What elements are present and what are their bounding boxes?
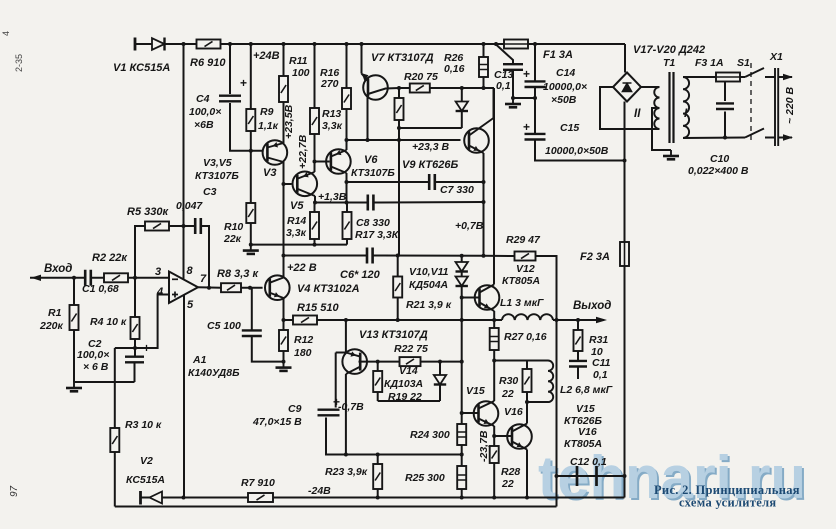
label C13 value: [496, 80, 511, 92]
transistor V3 KT3107: [263, 140, 288, 165]
label R3: [125, 419, 162, 431]
label R27: [504, 331, 547, 343]
label KT805A col: [564, 438, 602, 450]
wire V11 to V12 base: [462, 286, 480, 298]
svg-text:R15 510: R15 510: [297, 302, 339, 314]
svg-text:С6* 120: С6* 120: [340, 269, 381, 281]
svg-text:3,3к: 3,3к: [286, 227, 307, 239]
label C10 value: [688, 165, 749, 177]
wire R17 bottom stub: [346, 239, 348, 245]
page mark 4: [1, 31, 11, 36]
wire R26 column top: [483, 44, 485, 57]
svg-text:R30: R30: [499, 375, 518, 387]
wire bias column to bus: [461, 298, 463, 321]
wire R10 column: [250, 151, 252, 203]
wire C3 to output node: [201, 226, 209, 288]
label R16: [320, 67, 339, 79]
svg-text:L1 3 мкГ: L1 3 мкГ: [500, 297, 544, 309]
label V2 type: [126, 474, 165, 486]
wire V4 emitter drop: [283, 298, 285, 320]
svg-text:+: +: [523, 120, 530, 134]
capacitor C3: [195, 218, 201, 234]
svg-text:4: 4: [156, 286, 163, 298]
label R1 value: [39, 320, 64, 332]
label +0.7V: [455, 220, 484, 232]
label V14 type: [384, 378, 423, 390]
wire V12 emitter drop: [493, 311, 495, 320]
wire V10 column top: [461, 256, 463, 262]
wire R4 column: [134, 278, 136, 317]
svg-text:0,16: 0,16: [444, 63, 465, 75]
svg-text:V9 КТ626Б: V9 КТ626Б: [402, 159, 458, 171]
ground ground under R10: [243, 245, 259, 254]
label V16 col: [578, 426, 597, 438]
svg-text:+: +: [143, 341, 150, 355]
junction dots lower: [182, 136, 728, 500]
svg-text:+22,7В: +22,7В: [297, 134, 309, 169]
wire V12 collector column: [493, 88, 495, 285]
label R25: [405, 472, 445, 484]
svg-text:F2 3А: F2 3А: [580, 251, 610, 263]
wire R25 stubs: [461, 455, 463, 467]
label R14 value: [286, 227, 307, 239]
wire C5 drop: [251, 288, 253, 330]
wire R23 bottom stub: [377, 489, 379, 498]
label F3: [695, 57, 724, 69]
label C2 value: [77, 349, 109, 361]
wire C4 top stub: [229, 44, 231, 94]
zener V2: [150, 492, 163, 504]
svg-text:R14: R14: [287, 215, 306, 227]
page mark 2-35: [14, 54, 24, 72]
label R20: [404, 71, 438, 83]
wire V2 leads: [141, 497, 184, 499]
svg-text:R11: R11: [289, 55, 308, 67]
label C4 value: [189, 106, 221, 118]
wire C2 bottom stub: [134, 363, 136, 383]
label C4 volts: [194, 119, 214, 131]
label V12: [516, 263, 535, 275]
svg-text:22: 22: [501, 478, 514, 490]
wire output bus: [317, 319, 502, 321]
label winding II: [634, 108, 641, 120]
wire V6 emitter rise: [346, 140, 348, 150]
label X1: [769, 51, 783, 63]
label R10 value: [223, 233, 242, 245]
resistor R19: [373, 371, 382, 392]
label R17: [355, 229, 400, 241]
capacitor C5: [242, 330, 262, 336]
svg-text:V3: V3: [263, 167, 276, 179]
label +22V: [287, 262, 317, 274]
svg-text:КД103А: КД103А: [384, 378, 423, 390]
label R12: [294, 334, 313, 346]
label A1 type: [188, 367, 240, 379]
wire R14 bottom stub: [314, 239, 316, 245]
wire V10-V11 link: [461, 272, 463, 277]
wire C13-C14 ground wire: [513, 97, 535, 99]
wire pin5 drop: [183, 295, 185, 498]
svg-text:V12: V12: [516, 263, 535, 275]
wire V13 base column: [345, 320, 347, 353]
ground ground T1 tap: [663, 150, 679, 159]
label C9: [288, 403, 302, 415]
transistor V5 KT3107: [293, 172, 318, 197]
wire F2 column: [624, 102, 626, 243]
svg-text:3: 3: [155, 266, 161, 278]
connector X1: [775, 68, 793, 146]
svg-text:V7 КТ3107Д: V7 КТ3107Д: [371, 52, 434, 64]
label C3: [203, 186, 217, 198]
wire C8 wire right: [373, 201, 483, 204]
svg-text:R17 3,3К: R17 3,3К: [355, 229, 400, 241]
svg-text:V15: V15: [466, 385, 485, 397]
resistor R22: [400, 357, 421, 366]
wire V14 bottom stub: [439, 385, 441, 402]
wire R14 top stub: [314, 203, 316, 213]
wire V6 collector drop: [346, 173, 348, 203]
svg-text:R22 75: R22 75: [394, 343, 428, 355]
label C10: [710, 153, 729, 165]
label +1.3V: [318, 191, 347, 203]
wire C9 bottom wire: [346, 454, 462, 456]
capacitor C12 plate B: [595, 466, 598, 486]
svg-text:С3: С3: [203, 186, 217, 198]
label -0.7V: [338, 401, 364, 413]
wire R1 bottom stub: [73, 330, 75, 382]
zener V2 terminal bar: [139, 491, 142, 505]
wire V15 base column: [461, 362, 463, 413]
svg-text:0,1: 0,1: [496, 80, 511, 92]
svg-text:КТ3107Б: КТ3107Б: [351, 167, 395, 179]
resistor R1: [70, 305, 79, 330]
svg-text:×50В: ×50В: [551, 94, 577, 106]
capacitor C10: [716, 103, 734, 109]
svg-text:V15: V15: [576, 403, 595, 415]
watermark tehnari.ru: [538, 444, 808, 513]
inductor L1: [502, 314, 553, 320]
label R2: [92, 252, 128, 264]
svg-text:+23,3 В: +23,3 В: [412, 141, 449, 153]
svg-text:10000,0×50В: 10000,0×50В: [545, 145, 609, 157]
wire R16 to V9 base wire: [346, 109, 348, 140]
wire R18 node drop to +22 wire: [398, 128, 400, 256]
svg-text:7: 7: [200, 273, 207, 285]
label R10: [224, 221, 243, 233]
svg-text:R12: R12: [294, 334, 313, 346]
label V17-V20: [633, 44, 705, 56]
wire -24V bottom rail: [141, 497, 625, 499]
wire R23 top stub: [377, 455, 379, 465]
wire V8 top stub: [461, 88, 463, 102]
label V14: [399, 365, 418, 377]
label +23.3V: [412, 141, 449, 153]
label C13: [494, 69, 513, 81]
svg-text:F1 3А: F1 3А: [543, 49, 573, 61]
wire R9 column: [250, 44, 252, 109]
wire V15 base wire: [462, 412, 479, 414]
label pin7: [200, 273, 207, 285]
wire V14 top stub: [439, 362, 441, 375]
label R23: [325, 466, 368, 478]
svg-text:R6 910: R6 910: [190, 57, 226, 69]
wire V5 collector drop: [314, 196, 316, 203]
wire R19-V14 bottom wire: [378, 400, 440, 402]
svg-text:270: 270: [320, 78, 339, 90]
label C14: [556, 67, 575, 79]
svg-text:R23 3,9к: R23 3,9к: [325, 466, 368, 478]
resistor R30: [523, 369, 532, 392]
label +22,7V: [297, 134, 309, 169]
wire winding II centre tap: [652, 108, 671, 150]
wire +24V top rail: [135, 43, 625, 45]
resistor R31: [574, 330, 583, 351]
wire R18 top stub: [398, 88, 400, 98]
label C4: [196, 93, 210, 105]
wire R10 bottom: [250, 223, 252, 245]
svg-text:R9: R9: [260, 106, 274, 118]
label C7: [440, 184, 474, 196]
label R21: [406, 299, 452, 311]
wire analog ground wire: [74, 381, 135, 383]
label pin4: [156, 286, 163, 298]
wire V8 bottom stub: [461, 111, 463, 128]
capacitor C2: [125, 357, 144, 363]
label R29: [506, 234, 541, 246]
wire R12 top stub: [283, 320, 285, 330]
svg-text:F3 1А: F3 1А: [695, 57, 724, 69]
label +24V: [253, 50, 280, 62]
wire V16 emitter drop: [526, 450, 528, 498]
wire pin8 stub: [183, 226, 185, 279]
label F1: [543, 49, 573, 61]
svg-text:+1,3В: +1,3В: [318, 191, 347, 203]
label R28: [501, 466, 520, 478]
label C8: [356, 217, 390, 229]
label R11 value: [292, 67, 310, 79]
wire R26 column bottom: [483, 77, 485, 88]
C14 plus: [523, 67, 530, 81]
label C5: [207, 320, 241, 332]
label V13: [359, 329, 428, 341]
wire V7 base drop: [367, 97, 369, 140]
C2 plus: [143, 341, 150, 355]
diode V10: [456, 262, 468, 272]
wire C8 wire: [315, 202, 368, 204]
wire input node: [30, 277, 169, 279]
wire F3 to switch: [740, 76, 745, 78]
svg-text:С14: С14: [556, 67, 575, 79]
svg-text:5: 5: [187, 299, 194, 311]
wire R11 column: [283, 44, 285, 76]
label V4: [297, 283, 360, 295]
svg-text:8: 8: [187, 265, 194, 277]
wire R30 top stub: [526, 361, 528, 370]
svg-text:R8 3,3 к: R8 3,3 к: [217, 268, 259, 280]
resistor R16: [342, 88, 351, 109]
wire R24 bottom stub: [461, 445, 463, 455]
wire C7 wire right: [435, 181, 484, 183]
label V15 col: [576, 403, 595, 415]
svg-text:-23,7В: -23,7В: [478, 430, 490, 462]
resistor R11: [279, 76, 288, 102]
svg-text:+24В: +24В: [253, 50, 280, 62]
fuse F3: [716, 73, 740, 82]
svg-text:КТ3107Б: КТ3107Б: [195, 170, 239, 182]
caption line 2: [679, 496, 776, 510]
label ~220V: [784, 87, 796, 124]
wire R3/V2 drop: [114, 348, 116, 428]
label +23,5V: [283, 104, 295, 139]
svg-text:×6В: ×6В: [194, 119, 214, 131]
wire frame return line: [115, 506, 557, 508]
svg-text:R7 910: R7 910: [241, 477, 275, 489]
fuse F1: [504, 40, 528, 49]
wire C4 bottom to V3 base: [230, 103, 263, 151]
label L1: [500, 297, 544, 309]
diode V1: [152, 38, 165, 51]
transistor V12 KT805A: [475, 285, 500, 312]
svg-text:V16: V16: [578, 426, 597, 438]
capacitor C4: [219, 96, 241, 102]
svg-text:С4: С4: [196, 93, 210, 105]
svg-text:С9: С9: [288, 403, 302, 415]
transistor V9 KT626: [464, 118, 493, 153]
wire C15 bottom: [535, 139, 625, 161]
label C15: [560, 122, 579, 134]
svg-text:100,0×: 100,0×: [77, 349, 109, 361]
resistor R4: [131, 317, 140, 339]
capacitor C12 plate A: [576, 466, 579, 486]
capacitor C13: [503, 64, 523, 70]
wire switch to X1 top: [765, 76, 775, 78]
capacitor C8: [368, 195, 374, 211]
ground ground C13: [505, 98, 521, 107]
wire R13 to V6 base: [315, 134, 330, 162]
switch S1: [745, 63, 764, 141]
wire R21 bottom stub: [397, 298, 399, 321]
label V7: [371, 52, 434, 64]
label KD504A: [409, 279, 448, 291]
resistor R26: [479, 57, 488, 77]
label L2: [560, 384, 613, 396]
label V5: [290, 200, 304, 212]
diode V1 terminal bar: [134, 38, 137, 51]
label R28 value: [501, 478, 514, 490]
capacitor C1: [85, 270, 91, 286]
svg-text:V2: V2: [140, 455, 153, 467]
svg-text:V3,V5: V3,V5: [203, 157, 232, 169]
svg-text:V1 КС515А: V1 КС515А: [113, 62, 170, 74]
wire C5 bottom: [252, 337, 284, 362]
svg-text:V4 КТ3102А: V4 КТ3102А: [297, 283, 360, 295]
svg-text:V5: V5: [290, 200, 304, 212]
wire switch to X1 bottom: [765, 137, 775, 139]
wire R30/L2 top wire: [494, 360, 548, 362]
wire R27 bottom stub: [493, 350, 495, 361]
wire +22V wire right of C6: [373, 255, 484, 257]
label R19: [388, 391, 422, 403]
wire V1 leads: [135, 43, 184, 45]
wire R30/L2 bottom wire: [527, 401, 548, 403]
label V15: [466, 385, 485, 397]
svg-text:Выход: Выход: [573, 300, 611, 312]
inductor L2: [548, 361, 553, 403]
label A1: [192, 354, 207, 366]
svg-text:2-35: 2-35: [14, 54, 24, 72]
svg-text:1,1к: 1,1к: [258, 120, 279, 132]
label V16: [504, 406, 523, 418]
svg-text:~ 220 В: ~ 220 В: [784, 87, 796, 124]
wire C7 wire left: [347, 181, 430, 183]
svg-text:L2 6,8 мкГ: L2 6,8 мкГ: [560, 384, 613, 396]
wire R8 to V4 base: [241, 287, 263, 289]
fuse F2: [620, 242, 629, 266]
wire R9 to V3 node: [250, 131, 252, 151]
label S1: [737, 57, 750, 69]
label C1: [82, 283, 119, 295]
resistor R18: [395, 98, 404, 120]
label C11 value: [593, 369, 608, 381]
label C2: [88, 338, 102, 350]
resistor R6: [197, 40, 221, 49]
label V1: [113, 62, 170, 74]
wire R4-C2 node: [134, 339, 136, 357]
svg-text:22: 22: [501, 388, 514, 400]
svg-text:97: 97: [9, 485, 20, 497]
label V6 type: [351, 167, 395, 179]
label KT3107B: [195, 170, 239, 182]
label R5: [127, 206, 169, 218]
label -24V: [308, 485, 331, 497]
caption line 1: [654, 483, 800, 497]
wire R3 bottom to frame: [114, 452, 116, 507]
svg-text:V10,V11: V10,V11: [409, 266, 449, 278]
svg-text:С12 0,1: С12 0,1: [570, 456, 607, 468]
label Vyhod: [573, 300, 611, 312]
resistor R9: [246, 109, 255, 131]
ground ground under R12: [276, 362, 292, 371]
transformer T1 core: [670, 72, 674, 143]
wire V7 emitter rise: [361, 44, 363, 74]
label R22: [394, 343, 428, 355]
label R1: [48, 307, 62, 319]
label R6: [190, 57, 226, 69]
label C11: [592, 357, 611, 369]
wire R20 to V8 node: [430, 87, 494, 89]
svg-text:R24 300: R24 300: [410, 429, 450, 441]
transformer T1 winding I: [683, 77, 689, 138]
label V12 type: [502, 275, 540, 287]
wire C11 bottom stub: [577, 367, 579, 380]
wire R31 to C11: [577, 351, 579, 361]
resistor R28: [490, 446, 499, 463]
svg-text:22к: 22к: [223, 233, 242, 245]
diode V11: [456, 277, 468, 287]
svg-text:R10: R10: [224, 221, 243, 233]
resistor R21: [393, 277, 402, 298]
svg-text:С1 0,68: С1 0,68: [82, 283, 119, 295]
resistor R13: [310, 108, 319, 134]
label R26 value: [444, 63, 465, 75]
transistor V6 KT3107: [326, 149, 351, 174]
label R30: [499, 375, 518, 387]
label -23,7V: [478, 430, 490, 462]
resistor R27: [490, 328, 499, 350]
capacitor C6: [367, 248, 373, 264]
resistor R14: [310, 212, 319, 239]
label T1: [663, 57, 675, 69]
